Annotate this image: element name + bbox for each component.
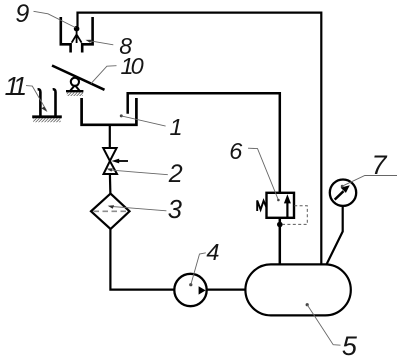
label 3	[168, 198, 182, 224]
label 11 leader with arrow	[26, 86, 46, 111]
tank 1	[82, 98, 137, 125]
label 4 leader	[189, 283, 192, 286]
label 2	[169, 162, 183, 187]
wire: relief valve 6 down to receiver 5	[279, 218, 282, 265]
label 10 leader	[91, 66, 117, 84]
flow arrow at valve 2	[112, 159, 128, 164]
label 9	[15, 2, 29, 27]
junction node at pilot tap	[277, 222, 283, 228]
label 8	[119, 35, 132, 58]
label 7	[372, 152, 387, 179]
filter 3	[91, 194, 130, 229]
label 2 leader with arrow	[109, 170, 168, 175]
wire: valve 2 to filter 3	[109, 174, 112, 195]
ground hatch under pivot	[67, 92, 83, 96]
pressure gauge 7	[330, 180, 356, 206]
label 1 leader	[120, 114, 123, 117]
receiver 5 (stadium vessel)	[245, 264, 350, 315]
label 5	[342, 333, 357, 360]
wire: filter 3 down and right to pump 4	[110, 229, 174, 290]
wire: top header pipe from nozzle riser to right-side drop	[78, 13, 322, 265]
label 1	[170, 116, 183, 140]
label 6 leader	[248, 148, 278, 200]
pump 4	[174, 274, 206, 306]
label 5 leader	[306, 303, 309, 306]
pivot support with roller	[66, 78, 83, 91]
wire: dip pipe into tank, overflow line to relief valve	[128, 93, 280, 193]
collecting funnel 8	[61, 17, 93, 53]
ground hatch under stand 11	[33, 118, 60, 122]
wire: tank outlet to valve 2	[109, 126, 111, 149]
label 11	[5, 73, 23, 99]
wire: pump 4 to receiver 5	[207, 289, 246, 291]
label 7 leader	[341, 185, 344, 188]
label 3 leader with arrow	[110, 206, 167, 211]
wire: gauge 7 stem to receiver 5	[326, 206, 342, 265]
relief valve 6	[257, 193, 294, 218]
spring of relief valve 6	[257, 200, 266, 211]
tilting tray 10	[52, 66, 105, 90]
stand 11 (two posts on ground)	[32, 89, 62, 116]
label 6	[229, 140, 242, 164]
filter element (dashed)	[94, 210, 129, 212]
label 8 leader with arrow	[89, 41, 114, 45]
pilot control dashed line of valve 6	[283, 206, 308, 225]
label 4	[206, 241, 219, 265]
spray nozzle 9	[72, 26, 82, 43]
valve 2 (shut-off valve)	[103, 148, 117, 174]
label 9 leader	[34, 11, 76, 27]
label 10	[121, 55, 141, 79]
